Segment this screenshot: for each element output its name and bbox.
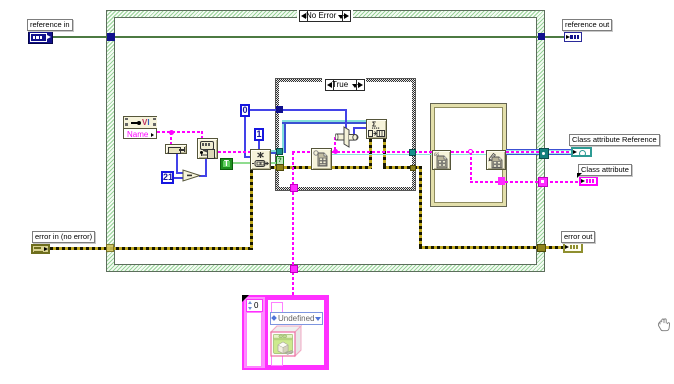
constant 0	[240, 104, 250, 117]
tunnel 0 (True border)	[276, 106, 283, 113]
tunnel class attribute out (outer border)	[538, 177, 548, 187]
terminal Class attribute Reference	[571, 147, 592, 157]
case structure (True, inner)	[275, 78, 416, 191]
junction between frame nodes	[468, 149, 473, 154]
terminal error in (no error)	[31, 244, 50, 254]
wire name into search node top	[201, 131, 203, 139]
wire class attribute out run	[470, 181, 580, 183]
property node U1 (VI / Name)	[123, 116, 157, 139]
tunnel class attribute (frame border)	[498, 177, 505, 185]
tunnel refnum left (outer border)	[107, 33, 115, 41]
tunnel LabVIEW object (outer bottom border)	[290, 265, 298, 273]
cluster element frame	[265, 297, 327, 368]
tunnel refnum right (outer border)	[538, 33, 545, 40]
case structure (error case, outer)	[106, 10, 545, 272]
wire boolean obtain node to case selector	[271, 162, 277, 164]
wire subtract out to search node	[199, 175, 207, 177]
node string length	[165, 144, 187, 154]
frame (decorative double-line box)	[430, 103, 507, 207]
node obtain reference (asterisk/queue)	[250, 149, 271, 170]
wire error long bottom run to border	[419, 246, 541, 249]
tunnel queue refnum (True border)	[276, 148, 283, 155]
wire class branch down	[470, 152, 472, 182]
constant 1	[254, 128, 264, 141]
wire 0 vertical into funnel top	[345, 110, 347, 128]
junction at funnel branch	[333, 149, 338, 154]
tunnel case selector	[276, 156, 284, 165]
enum Undefined	[270, 312, 323, 325]
wire error sigma node down	[383, 139, 386, 168]
wire class object up from bottom into doc node	[292, 152, 294, 296]
wire error inside True case	[281, 166, 372, 169]
LabVIEW object cube constant	[267, 324, 304, 359]
wire error up to obtain node	[250, 170, 253, 250]
wire LabVIEW object constant up (below diagram)	[292, 272, 294, 296]
label error in (no error)	[32, 231, 95, 243]
constant T (boolean true)	[220, 158, 233, 170]
wire error to error out terminal	[543, 246, 564, 249]
wire 1 constant down	[258, 139, 260, 150]
wire reference refnum (dark green main run)	[51, 36, 566, 38]
tunnel class object (True bottom border)	[290, 184, 298, 192]
wire error obtain node to True tunnel	[271, 166, 279, 169]
case selector label "No Error"	[297, 9, 353, 21]
label error out	[561, 231, 595, 243]
terminal reference in	[28, 31, 53, 44]
wire search node out to obtain node	[218, 151, 250, 153]
wire 0 down-branch into obtain node	[244, 112, 246, 157]
label Class attribute Reference	[569, 134, 660, 146]
cluster pad top	[271, 302, 283, 316]
cluster pad bottom	[271, 353, 283, 366]
terminal Class attribute	[579, 176, 598, 186]
label reference out	[562, 19, 612, 31]
node search/open by name	[197, 138, 218, 159]
array constant (LabVIEW object, pink)	[242, 295, 329, 370]
wire 21 to subtract	[174, 177, 184, 179]
node get LV class default value (document)	[311, 148, 332, 170]
node read attribute (frame left)	[432, 150, 451, 170]
tunnel error out (outer border)	[537, 244, 546, 252]
wire error sigma to True border	[383, 166, 412, 169]
wire 0 constant to True case / down to funnel	[249, 109, 347, 111]
label reference in	[27, 19, 73, 31]
wire frame node L to node R	[451, 151, 486, 153]
array index box	[246, 299, 263, 312]
hand cursor	[656, 316, 672, 333]
node write attribute (frame right, pencil)	[486, 150, 506, 170]
node to more specific class (funnel)	[335, 126, 359, 148]
wire funnel output to sigma node	[353, 128, 355, 138]
wire name branch down into string length	[170, 132, 172, 146]
wire class into frame node L	[414, 151, 432, 153]
node sigma / flush queue	[366, 119, 387, 139]
wire boolean T to obtain node	[230, 162, 250, 164]
wire class refnum composite out (node R to terminal)	[506, 149, 572, 155]
tunnel class (True right border)	[409, 149, 416, 156]
terminal error out	[563, 242, 583, 253]
array index column	[246, 312, 262, 367]
wire doc node out across True case (class + cyan)	[332, 151, 412, 153]
wire reference out (right of border)	[543, 36, 565, 38]
wire name property to string length	[157, 131, 203, 133]
wire error out of True case, elbow down	[414, 166, 422, 169]
wire string length to subtract	[176, 154, 178, 174]
junction on name wire	[169, 130, 174, 135]
wire queue refnum (teal) tunnel to sigma node	[271, 150, 277, 154]
tunnel error in (outer border)	[106, 244, 114, 252]
wire error in run	[50, 247, 253, 250]
wire error up into sigma node	[369, 139, 372, 168]
case selector label "True"	[322, 78, 366, 90]
label Class attribute	[578, 164, 632, 176]
resize handle	[242, 295, 249, 302]
wire branch up into funnel	[334, 137, 336, 151]
tunnel error (True right border)	[410, 165, 416, 171]
op subtract Q1 (triangle)	[182, 169, 202, 182]
tunnel class refnum out (outer border)	[539, 148, 549, 159]
svg-text:Σ: Σ	[372, 122, 376, 129]
tunnel error (True left border)	[276, 164, 284, 171]
terminal reference out	[564, 32, 582, 42]
constant 21	[161, 171, 174, 184]
